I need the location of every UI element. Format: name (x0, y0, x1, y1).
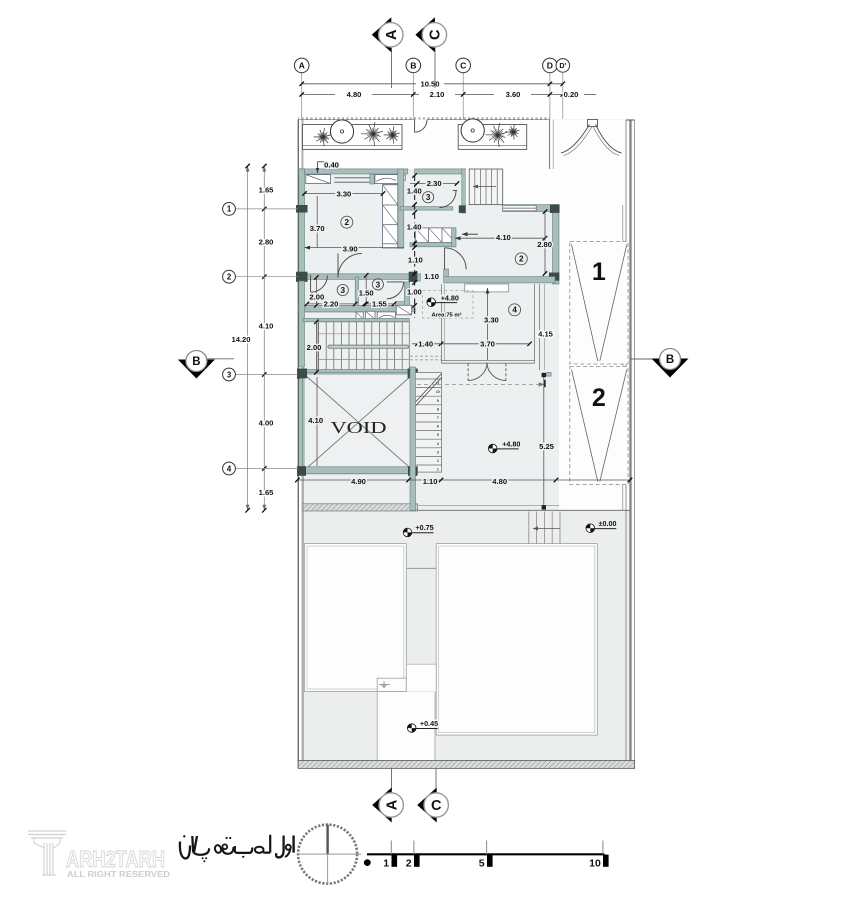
svg-text:8: 8 (437, 407, 439, 411)
svg-text:10: 10 (589, 858, 601, 870)
svg-text:5: 5 (437, 433, 439, 437)
svg-text:3: 3 (437, 450, 439, 454)
svg-text:6: 6 (437, 425, 439, 429)
svg-text:B: B (410, 60, 416, 70)
svg-text:1.50: 1.50 (359, 289, 374, 298)
svg-text:0.40: 0.40 (324, 161, 339, 170)
svg-text:1.40: 1.40 (407, 223, 422, 232)
svg-text:A: A (384, 29, 400, 40)
svg-text:3: 3 (376, 280, 381, 289)
svg-text:2.20: 2.20 (324, 300, 339, 309)
svg-text:4.80: 4.80 (492, 477, 507, 486)
svg-text:9: 9 (437, 399, 439, 403)
svg-text:3.70: 3.70 (480, 340, 495, 349)
svg-text:C: C (431, 798, 442, 814)
svg-text:3.30: 3.30 (337, 189, 352, 198)
svg-text:1.10: 1.10 (423, 477, 438, 486)
svg-text:3.60: 3.60 (506, 90, 521, 99)
svg-text:1: 1 (383, 858, 389, 870)
svg-text:3: 3 (426, 193, 431, 202)
svg-text:2: 2 (406, 858, 412, 870)
svg-text:4.15: 4.15 (538, 330, 554, 339)
svg-text:3.90: 3.90 (343, 245, 358, 254)
svg-text:4.90: 4.90 (351, 477, 366, 486)
svg-text:1.10: 1.10 (424, 272, 439, 281)
svg-text:1.40: 1.40 (418, 340, 433, 349)
svg-text:10.50: 10.50 (420, 80, 439, 89)
svg-text:1.65: 1.65 (259, 185, 275, 194)
svg-text:2: 2 (227, 273, 232, 282)
svg-text:Area:75 m²: Area:75 m² (432, 312, 462, 319)
svg-text:1: 1 (437, 468, 439, 472)
svg-text:C: C (428, 29, 444, 40)
svg-text:1.10: 1.10 (408, 256, 423, 265)
svg-text:VOID: VOID (331, 418, 387, 437)
svg-text:2.10: 2.10 (430, 90, 445, 99)
svg-text:5.25: 5.25 (539, 442, 555, 451)
svg-text:4: 4 (512, 306, 517, 315)
svg-text:3.70: 3.70 (310, 224, 325, 233)
svg-text:3: 3 (227, 370, 232, 379)
svg-text:5: 5 (479, 858, 485, 870)
svg-text:4: 4 (437, 442, 439, 446)
svg-text:10: 10 (436, 390, 440, 394)
svg-text:+4.80: +4.80 (502, 440, 520, 449)
svg-text:4: 4 (227, 464, 232, 473)
svg-text:D: D (547, 60, 553, 70)
svg-text:2: 2 (345, 218, 350, 227)
svg-text:1.65: 1.65 (259, 488, 275, 497)
svg-text:4.10: 4.10 (259, 321, 274, 330)
svg-text:4.80: 4.80 (347, 90, 362, 99)
svg-text:2: 2 (519, 255, 524, 264)
svg-text:2.80: 2.80 (537, 240, 552, 249)
svg-text:2: 2 (437, 459, 439, 463)
svg-text:2.80: 2.80 (259, 238, 274, 247)
svg-text:0.20: 0.20 (564, 90, 579, 99)
svg-text:B: B (192, 356, 200, 368)
svg-text:2.00: 2.00 (309, 292, 324, 301)
svg-text:+0.45: +0.45 (420, 719, 438, 728)
svg-text:1.00: 1.00 (407, 287, 422, 296)
svg-text:14.20: 14.20 (231, 335, 250, 344)
svg-text:B: B (666, 354, 674, 366)
svg-text:2.00: 2.00 (307, 343, 322, 352)
svg-text:1: 1 (592, 258, 606, 286)
svg-text:3: 3 (341, 286, 346, 295)
svg-text:2: 2 (592, 384, 606, 412)
svg-text:ALL RIGHT RESERVED: ALL RIGHT RESERVED (67, 869, 170, 879)
svg-text:4.00: 4.00 (259, 419, 274, 428)
svg-text:A: A (299, 60, 305, 70)
svg-text:3.30: 3.30 (484, 316, 499, 325)
svg-text:±0.00: ±0.00 (599, 519, 617, 528)
svg-text:1.55: 1.55 (372, 300, 388, 309)
svg-text:+4.80: +4.80 (441, 294, 459, 303)
svg-text:1.40: 1.40 (407, 186, 422, 195)
svg-text:A: A (384, 799, 400, 810)
svg-text:+0.75: +0.75 (415, 523, 433, 532)
svg-text:2.30: 2.30 (427, 179, 442, 188)
svg-text:C: C (460, 60, 466, 70)
svg-text:D': D' (559, 61, 566, 70)
svg-text:4.10: 4.10 (496, 233, 511, 242)
svg-text:7: 7 (437, 416, 439, 420)
svg-text:4.10: 4.10 (308, 416, 323, 425)
svg-text:1: 1 (227, 205, 232, 214)
